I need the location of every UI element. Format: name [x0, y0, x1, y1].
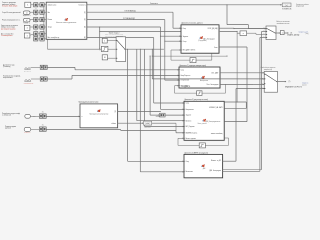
svg-text:Вкл. останов. Вкл: Вкл. останов. Вкл [1, 33, 13, 35]
svg-text:об/мин канал: об/мин канал [48, 4, 57, 6]
svg-text:повороте (по): повороте (по) [264, 69, 273, 71]
svg-text:ДВ3_Электродвигатель: ДВ3_Электродвигатель [206, 121, 221, 123]
svg-text:МОДЕЛЬ_ДВ_РДЧ: МОДЕЛЬ_ДВ_РДЧ [287, 35, 299, 37]
svg-text:Нечеткая логика управления: Нечеткая логика управления [56, 22, 76, 24]
svg-text:Старт: Старт [183, 41, 187, 43]
svg-text:об/мин: об/мин [111, 123, 116, 125]
svg-text:Момент_на_ВЛ: Момент_на_ВЛ [211, 160, 221, 162]
svg-text:ГОТОВ ВЫХОД: ГОТОВ ВЫХОД [124, 10, 136, 12]
svg-text:(Запуск после пауз): (Запуск после пауз) [1, 27, 15, 29]
svg-text:Напряжение: Напряжение [186, 109, 194, 111]
svg-text:[об/м]: [об/м] [146, 123, 150, 125]
svg-text:10: 10 [104, 57, 106, 59]
svg-text:ГОТОВ ВЫХОД2: ГОТОВ ВЫХОД2 [123, 18, 135, 20]
svg-text:ПОТРЕБЛЕНИЕ: ПОТРЕБЛЕНИЕ [24, 82, 34, 84]
svg-text:РЕЖИМ_1с: РЕЖИМ_1с [23, 22, 30, 24]
svg-text:вкл: вкл [35, 30, 37, 32]
svg-text:Потреб.(включ нагрузки),: Потреб.(включ нагрузки), [3, 75, 21, 77]
svg-text:вкл: вкл [35, 15, 37, 17]
svg-text:повышения частоты: повышения частоты [277, 23, 290, 25]
svg-text:Скор: Скор [186, 161, 189, 163]
svg-text:Скорость: Скорость [302, 83, 308, 85]
svg-text:ОБОРОТЫ: ОБОРОТЫ [144, 127, 150, 129]
svg-text:не более 1500 об/мин: не более 1500 об/мин [2, 6, 17, 8]
svg-text:СКО_ДВИГ: СКО_ДВИГ [211, 72, 219, 74]
svg-text:1: 1 [104, 40, 105, 42]
svg-text:Задание: Задание [183, 36, 189, 38]
svg-text:Включ. задания: Включ. задания [186, 138, 196, 140]
svg-text:вкл: вкл [35, 7, 37, 9]
svg-text:потребления с: потребления с [3, 77, 13, 79]
svg-text:вкл: вкл [35, 22, 37, 24]
svg-text:момент изгибающ: момент изгибающ [211, 133, 224, 135]
svg-text:ВКЛ_Задание: ВКЛ_Задание [186, 126, 195, 128]
svg-text:грубинка: грубинка [5, 128, 11, 130]
svg-text:об/мин: об/мин [156, 116, 161, 118]
svg-text:Готовность работы: Готовность работы [296, 4, 309, 6]
svg-text:двигателя (об/мин): двигателя (об/мин) [2, 4, 16, 6]
svg-text:ДВ4_Электродвиг: ДВ4_Электродвиг [209, 170, 221, 172]
svg-text:a: a [243, 33, 244, 35]
svg-text:Скор: Скор [181, 69, 184, 71]
svg-text:Датчиквент нагр.: Датчиквент нагр. [3, 64, 15, 66]
svg-text:ДВ1_Электродвиг: ДВ1_Электродвиг [203, 38, 215, 40]
svg-text:Готовность: Готовность [78, 4, 85, 6]
svg-text:Задание: Задание [186, 115, 192, 117]
svg-text:Готов: Готов [214, 47, 218, 49]
svg-text:Скорость_раб: Скорость_раб [299, 31, 309, 33]
svg-text:Останов работы: Останов работы [1, 35, 12, 37]
svg-text:Режим: Режим [48, 19, 52, 21]
svg-text:Вкл: Вкл [48, 12, 51, 14]
svg-text:Запуск после остановки: Запуск после остановки [1, 25, 18, 27]
svg-text:(грохот): (грохот) [302, 84, 307, 86]
svg-text:Скорость вращения: Скорость вращения [2, 2, 16, 4]
svg-text:(Тахометр): (Тахометр) [3, 66, 11, 68]
svg-text:Вкл/откл: Вкл/откл [186, 120, 192, 122]
svg-text:Скор: Скор [183, 28, 186, 30]
svg-text:1: 1 [282, 33, 283, 35]
svg-text:ДВ4: ДВ4 [203, 168, 206, 170]
svg-text:Режим блокировки вент. ч.: Режим блокировки вент. ч. [2, 20, 21, 22]
svg-text:СКО_ДВИГ_В: СКО_ДВИГ_В [182, 86, 191, 88]
svg-text:ГОТОВНОСТЬ: ГОТОВНОСТЬ [282, 8, 291, 10]
svg-text:Напр/Скорость: Напр/Скорость [181, 75, 191, 77]
svg-text:Запуск: Запуск [48, 27, 53, 29]
svg-text:Потребление: Потребление [181, 80, 190, 82]
svg-text:при запуске машины: при запуске машины [1, 28, 15, 30]
svg-text:Поть_Электродвиг: Поть_Электродвиг [206, 84, 219, 86]
svg-text:в1: в1 [26, 12, 28, 14]
svg-text:Скор: Скор [186, 103, 189, 105]
svg-text:Вкл. отказ/убыстр: Вкл. отказ/убыстр [48, 37, 60, 39]
svg-text:Насос_насосы: Насос_насосы [198, 123, 207, 125]
svg-text:в2: в2 [26, 20, 28, 22]
svg-text:ВКЛ_ДВИГ_СБРОС: ВКЛ_ДВИГ_СБРОС [183, 50, 196, 52]
svg-text:Готовность: Готовность [150, 3, 158, 5]
svg-text:(индикатор): (индикатор) [296, 6, 304, 8]
svg-text:Включение: Включение [186, 171, 193, 173]
